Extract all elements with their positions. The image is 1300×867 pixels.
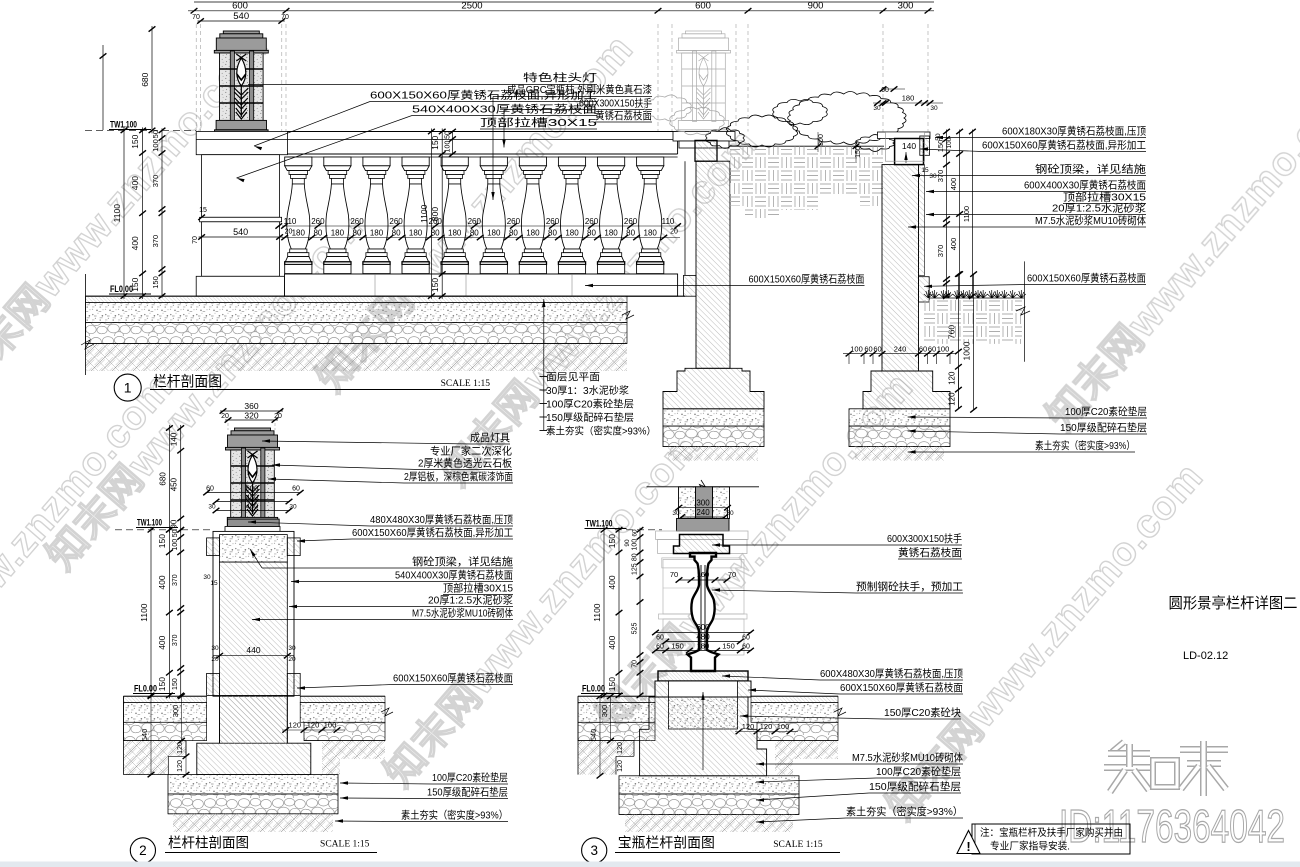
- dim 1000: [973, 274, 975, 410]
- svg-text:900: 900: [808, 1, 824, 12]
- svg-text:60: 60: [632, 529, 639, 537]
- baluster 5: [441, 157, 468, 166]
- svg-text:100: 100: [445, 141, 452, 153]
- s3 background projection blocks: [663, 560, 744, 615]
- svg-text:80: 80: [632, 553, 639, 561]
- svg-text:150厚级配碎石垫层: 150厚级配碎石垫层: [546, 411, 634, 424]
- dim 540 in pillar: [199, 236, 283, 238]
- svg-text:150: 150: [130, 277, 140, 291]
- svg-text:150: 150: [607, 677, 617, 691]
- svg-text:400: 400: [157, 635, 167, 649]
- svg-text:680: 680: [158, 472, 167, 486]
- baluster 7: [519, 157, 546, 166]
- svg-text:480: 480: [696, 632, 710, 641]
- svg-text:120: 120: [307, 721, 320, 730]
- svg-text:30厚1：3水泥砂浆: 30厚1：3水泥砂浆: [546, 384, 629, 397]
- svg-text:600: 600: [232, 1, 248, 12]
- svg-text:100厚C20素砼垫层: 100厚C20素砼垫层: [876, 765, 961, 778]
- svg-text:180: 180: [409, 229, 423, 238]
- svg-text:60: 60: [919, 345, 927, 354]
- svg-text:260: 260: [389, 217, 403, 226]
- GRC footing gravel pad: [663, 426, 764, 447]
- svg-text:100: 100: [777, 722, 790, 731]
- svg-text:180: 180: [331, 229, 345, 238]
- svg-text:2: 2: [139, 843, 147, 858]
- svg-text:400: 400: [130, 236, 140, 250]
- svg-text:!: !: [966, 839, 970, 854]
- svg-text:黄锈石荔枝面: 黄锈石荔枝面: [898, 546, 962, 559]
- svg-text:540X400X30厚黄锈石荔枝面: 540X400X30厚黄锈石荔枝面: [412, 103, 597, 116]
- svg-text:600: 600: [696, 623, 710, 632]
- wall footing steps: [863, 371, 950, 409]
- svg-text:100: 100: [151, 139, 160, 152]
- svg-text:TW1.100: TW1.100: [137, 518, 162, 529]
- s3 ground layers right: [751, 696, 838, 702]
- svg-text:3: 3: [590, 843, 598, 858]
- svg-text:370: 370: [936, 245, 945, 258]
- baluster 2: [324, 157, 351, 166]
- svg-text:70: 70: [728, 570, 736, 579]
- svg-text:30: 30: [288, 645, 296, 652]
- svg-text:150厚级配碎石垫层: 150厚级配碎石垫层: [869, 780, 961, 793]
- svg-text:100: 100: [946, 137, 953, 148]
- s2 side block bottom-right: [287, 673, 300, 695]
- svg-text:1100: 1100: [592, 603, 602, 622]
- svg-text:110: 110: [662, 217, 675, 226]
- svg-text:60: 60: [656, 634, 664, 641]
- svg-text:600X300X150扶手: 600X300X150扶手: [579, 97, 652, 110]
- s2 dim 1100: [150, 527, 152, 699]
- svg-text:钢砼顶梁，详见结施: 钢砼顶梁，详见结施: [412, 555, 514, 568]
- s2 ground layers right stepped: [300, 696, 385, 702]
- s3 handrail projection band: [656, 531, 748, 540]
- wall footing soil: [855, 447, 944, 461]
- s3 vase baluster section: [688, 553, 719, 671]
- GRC column footing steps: [663, 368, 764, 409]
- svg-text:370: 370: [151, 175, 160, 188]
- svg-text:1100: 1100: [962, 206, 971, 222]
- svg-text:600X400X30厚黄锈石荔枝面: 600X400X30厚黄锈石荔枝面: [1024, 179, 1146, 192]
- GRC column ghost lamp: [686, 31, 722, 34]
- svg-text:400: 400: [157, 575, 167, 589]
- svg-text:120: 120: [177, 742, 184, 754]
- lamp feature column-head light: [223, 31, 259, 34]
- s3 footing soil: [625, 814, 793, 832]
- s2 lamp: [235, 428, 271, 431]
- svg-text:370: 370: [936, 170, 945, 183]
- pillar base: [196, 276, 284, 296]
- s1 ground break mark right: [622, 311, 634, 319]
- svg-text:30: 30: [211, 645, 219, 652]
- wall right chain 1100: [971, 130, 973, 299]
- svg-text:20: 20: [274, 413, 282, 420]
- svg-text:70: 70: [192, 14, 200, 21]
- s3 inner chain right: [639, 528, 641, 698]
- svg-text:140: 140: [170, 432, 179, 446]
- svg-text:预制钢砼扶手，预加工: 预制钢砼扶手，预加工: [856, 580, 963, 593]
- s3 top cut line: [647, 486, 760, 488]
- baluster 1: [285, 157, 312, 166]
- title circle 3: [582, 838, 607, 863]
- svg-text:宝瓶栏杆剖面图: 宝瓶栏杆剖面图: [618, 835, 715, 851]
- svg-text:680: 680: [140, 72, 150, 86]
- baluster 8: [558, 157, 585, 166]
- svg-text:300: 300: [171, 705, 180, 718]
- svg-text:M7.5水泥砂浆MU10砖砌体: M7.5水泥砂浆MU10砖砌体: [852, 751, 963, 764]
- svg-text:100: 100: [324, 721, 337, 730]
- svg-text:20厚1:2.5水泥砂浆: 20厚1:2.5水泥砂浆: [1052, 202, 1147, 215]
- svg-text:110: 110: [284, 217, 297, 226]
- s2 ground layers left: [124, 696, 207, 702]
- svg-text:素土夯实（密实度>93%）: 素土夯实（密实度>93%）: [846, 805, 963, 818]
- svg-text:150厚级配碎石垫层: 150厚级配碎石垫层: [1060, 421, 1147, 434]
- dim 680 lamp height: [151, 26, 153, 133]
- svg-text:100: 100: [850, 345, 863, 354]
- compacted soil hatch: [86, 344, 628, 372]
- svg-text:120: 120: [760, 722, 773, 731]
- sheet top border line: [194, 1, 934, 3]
- s3 vase dims 70/160/70: [678, 579, 728, 581]
- svg-text:370: 370: [172, 574, 179, 586]
- s3 cut posts above: [679, 487, 696, 519]
- dim chain 50/100/370/30/370 inner left: [161, 128, 163, 298]
- svg-text:90: 90: [624, 539, 631, 547]
- s2 concrete beam: [220, 535, 288, 563]
- svg-text:150厚级配碎石垫层: 150厚级配碎石垫层: [427, 786, 508, 799]
- svg-text:540: 540: [233, 11, 249, 22]
- svg-text:60: 60: [864, 345, 872, 354]
- svg-text:180: 180: [644, 229, 658, 238]
- svg-text:125: 125: [632, 563, 639, 575]
- s3 band under handrail collar: [662, 558, 741, 568]
- svg-text:1100: 1100: [139, 603, 149, 622]
- svg-text:600X150X60厚黄锈石荔枝面,异形加工: 600X150X60厚黄锈石荔枝面,异形加工: [982, 139, 1146, 152]
- s3 dims 600/480: [655, 632, 752, 634]
- gravel layer 150: [86, 323, 628, 344]
- svg-text:400: 400: [607, 575, 617, 589]
- s2 lamp dim chain 140/450/90: [180, 425, 182, 533]
- svg-text:1100: 1100: [419, 204, 429, 223]
- baluster 4: [402, 157, 429, 166]
- pillar upper body: [202, 155, 280, 218]
- svg-text:ID:1176364042: ID:1176364042: [1059, 800, 1285, 852]
- s2 brick masonry core: [220, 562, 288, 743]
- svg-text:600X180X30厚黄锈石荔枝面,压顶: 600X180X30厚黄锈石荔枝面,压顶: [1002, 125, 1146, 138]
- s2 right step dim 120/120/100: [282, 729, 345, 731]
- s3 ground surface right: [751, 695, 838, 697]
- s3 ground surface left: [578, 695, 655, 697]
- svg-text:素土夯实（密实度>93%）: 素土夯实（密实度>93%）: [401, 809, 508, 822]
- right planting boundary: [1023, 261, 1025, 361]
- svg-text:20: 20: [285, 229, 293, 236]
- svg-text:400: 400: [949, 238, 958, 251]
- s2 footing soil: [173, 814, 333, 832]
- svg-text:180: 180: [292, 229, 306, 238]
- dim 120 120 below 760: [957, 367, 959, 409]
- planter soil line: [730, 145, 884, 147]
- wall right chain outer 400/400: [959, 130, 961, 299]
- svg-text:1000: 1000: [962, 341, 972, 360]
- s3 dim 1100: [603, 527, 605, 699]
- svg-text:260: 260: [468, 217, 482, 226]
- svg-text:600X150X60厚黄锈石荔枝面,异形加工: 600X150X60厚黄锈石荔枝面,异形加工: [352, 526, 513, 539]
- svg-text:480X480X30厚黄锈石荔枝面,压顶: 480X480X30厚黄锈石荔枝面,压顶: [370, 513, 513, 526]
- svg-text:15: 15: [210, 580, 218, 587]
- wall footing concrete pad: [849, 409, 950, 426]
- svg-text:300: 300: [600, 705, 609, 718]
- svg-text:100厚C20素砼垫层: 100厚C20素砼垫层: [1065, 405, 1147, 418]
- warning triangle: [957, 831, 980, 854]
- svg-text:80: 80: [548, 229, 557, 238]
- shrub plants outline: [788, 91, 906, 144]
- svg-text:SCALE 1:15: SCALE 1:15: [320, 839, 370, 849]
- svg-text:100: 100: [172, 539, 179, 551]
- svg-text:2500: 2500: [461, 1, 482, 12]
- s2 inner chain: [180, 528, 182, 698]
- svg-text:240: 240: [894, 345, 907, 354]
- wall shaft: [882, 165, 919, 371]
- svg-text:50: 50: [445, 131, 452, 139]
- svg-text:150: 150: [172, 678, 179, 690]
- svg-text:180: 180: [487, 229, 501, 238]
- s3 left dim chain 150/400/400/150: [618, 527, 620, 699]
- note mianceng jian pingmian: [540, 376, 548, 378]
- right planting weave: [923, 300, 1022, 344]
- s2 column outer finish: [213, 531, 294, 696]
- svg-text:30: 30: [929, 173, 937, 180]
- svg-text:100厚C20素砼垫层: 100厚C20素砼垫层: [546, 398, 634, 411]
- svg-text:120: 120: [617, 760, 624, 772]
- svg-text:1: 1: [124, 380, 132, 396]
- baluster 3: [363, 157, 390, 166]
- baluster top plinth line: [287, 156, 677, 158]
- s2 column cap stone: [228, 519, 280, 526]
- title circle 2: [130, 838, 155, 863]
- dim row 180/80: [282, 237, 680, 239]
- mid dim 50/100: [452, 131, 454, 156]
- GRC column shaft: [696, 161, 730, 368]
- svg-text:50: 50: [151, 130, 160, 138]
- wall base block right: [919, 277, 930, 302]
- svg-text:450: 450: [170, 477, 179, 491]
- mortar bed 30 thick: [86, 296, 628, 302]
- svg-text:60: 60: [742, 634, 750, 641]
- dim 540 over pillar: [198, 20, 285, 22]
- svg-text:540: 540: [140, 729, 149, 742]
- svg-text:20: 20: [288, 656, 296, 663]
- svg-text:260: 260: [311, 217, 325, 226]
- svg-text:150: 150: [157, 677, 167, 691]
- svg-text:600X150X60厚黄锈石荔枝面: 600X150X60厚黄锈石荔枝面: [1027, 272, 1146, 285]
- svg-text:70: 70: [670, 570, 678, 579]
- dim chain 150/400/400/150 left: [142, 127, 144, 299]
- svg-text:150: 150: [722, 641, 735, 650]
- baluster 10: [637, 157, 664, 166]
- mid dim chain 150/800/150: [441, 129, 443, 300]
- svg-text:栏杆柱剖面图: 栏杆柱剖面图: [168, 835, 249, 851]
- s3 handrail top gray block: [677, 519, 730, 532]
- svg-text:专业厂家二次深化: 专业厂家二次深化: [430, 445, 512, 458]
- s3 footing mass: [640, 697, 767, 776]
- pillar lower body: [202, 222, 280, 276]
- s3 cap band 600X480X30: [658, 671, 748, 681]
- svg-text:100厚C20素砼垫层: 100厚C20素砼垫层: [432, 771, 508, 784]
- svg-text:150厚C20素砼块: 150厚C20素砼块: [884, 706, 961, 719]
- svg-text:50: 50: [172, 529, 179, 537]
- svg-text:80: 80: [313, 229, 322, 238]
- svg-text:600: 600: [695, 1, 711, 12]
- s3 dims 300/240: [678, 507, 729, 509]
- svg-text:80: 80: [587, 229, 596, 238]
- svg-text:栏杆剖面图: 栏杆剖面图: [153, 374, 222, 391]
- svg-text:2厚米黄色透光云石板: 2厚米黄色透光云石板: [418, 457, 512, 470]
- svg-text:120: 120: [617, 742, 624, 754]
- svg-text:540X400X30厚黄锈石荔枝面: 540X400X30厚黄锈石荔枝面: [395, 569, 513, 582]
- svg-text:150: 150: [430, 278, 440, 292]
- svg-text:120: 120: [177, 760, 184, 772]
- svg-text:80: 80: [509, 229, 518, 238]
- balustrade bottom rail: [285, 273, 678, 275]
- svg-text:140: 140: [902, 141, 916, 151]
- svg-text:300: 300: [898, 1, 914, 12]
- s2 footing gravel pad: [168, 794, 338, 814]
- svg-text:150: 150: [157, 534, 167, 548]
- svg-text:320: 320: [244, 410, 258, 420]
- wall right finish strip: [919, 165, 925, 276]
- s2 ground surface right: [300, 695, 385, 697]
- s2 dim chain 150/400/400/150: [168, 527, 170, 699]
- svg-text:30: 30: [873, 105, 881, 112]
- svg-text:M7.5水泥砂浆MU10砖砌体: M7.5水泥砂浆MU10砖砌体: [1035, 214, 1146, 227]
- dim row 600/2500/600/900/300: [188, 10, 934, 12]
- svg-text:20: 20: [221, 413, 229, 420]
- svg-text:150: 150: [607, 534, 617, 548]
- svg-text:80: 80: [353, 229, 362, 238]
- svg-text:顶部拉槽30X15: 顶部拉槽30X15: [443, 582, 513, 595]
- svg-text:60: 60: [206, 486, 214, 493]
- wall cap dashed outline: [885, 132, 924, 161]
- svg-text:480: 480: [246, 493, 259, 502]
- svg-text:专业厂家指导安装.: 专业厂家指导安装.: [990, 840, 1070, 853]
- note 100hou C20: [540, 403, 548, 405]
- svg-text:400: 400: [607, 635, 617, 649]
- svg-text:70: 70: [281, 14, 289, 21]
- s2 lamp dim 680: [168, 425, 170, 533]
- svg-text:LD-02.12: LD-02.12: [1183, 650, 1228, 662]
- svg-text:370: 370: [172, 634, 179, 646]
- notes leader vertical: [543, 299, 545, 430]
- svg-text:60: 60: [928, 345, 936, 354]
- svg-text:180: 180: [526, 229, 540, 238]
- svg-text:30: 30: [289, 504, 297, 511]
- svg-text:180: 180: [902, 94, 915, 103]
- svg-text:70: 70: [192, 236, 199, 244]
- right planting soil line: [929, 297, 1024, 299]
- svg-text:80: 80: [431, 229, 440, 238]
- s2 footing concrete pad: [168, 775, 338, 794]
- svg-text:1100: 1100: [112, 204, 122, 223]
- svg-text:240: 240: [696, 508, 710, 517]
- svg-text:钢砼顶梁，详见结施: 钢砼顶梁，详见结施: [1035, 163, 1147, 176]
- s3 ground break mark right: [834, 708, 846, 716]
- svg-text:100: 100: [632, 539, 639, 551]
- svg-text:150: 150: [130, 134, 140, 148]
- GRC column left finish strip: [684, 161, 686, 275]
- s2 footing mass: [197, 695, 311, 774]
- note sutu hangshi: [540, 430, 548, 432]
- grass tufts: [924, 290, 933, 298]
- svg-text:260: 260: [429, 217, 443, 226]
- svg-text:60: 60: [742, 643, 750, 650]
- note 150hou jipeisuishi: [540, 416, 548, 418]
- svg-text:成品GRC宝瓶柱,外刷米黄色真石漆: 成品GRC宝瓶柱,外刷米黄色真石漆: [507, 83, 652, 96]
- svg-text:TW1.100: TW1.100: [586, 519, 613, 530]
- pillar mid band: [200, 217, 282, 222]
- svg-text:180: 180: [448, 229, 462, 238]
- svg-text:480: 480: [246, 502, 259, 511]
- svg-text:30: 30: [672, 510, 680, 517]
- svg-text:80: 80: [626, 229, 635, 238]
- svg-text:特色柱头灯: 特色柱头灯: [523, 71, 598, 84]
- GRC column cap core: [695, 140, 717, 161]
- svg-text:SCALE 1:15: SCALE 1:15: [441, 379, 491, 389]
- svg-text:150: 150: [936, 140, 945, 153]
- s3 concrete block C20: [669, 697, 738, 729]
- s2 ground break mark right: [381, 708, 393, 716]
- svg-text:圆形景亭栏杆详图二: 圆形景亭栏杆详图二: [1169, 594, 1298, 612]
- wall small top dims 30/180/30: [873, 102, 943, 104]
- GRC column cap: [673, 132, 735, 142]
- svg-text:600X480X30厚黄锈石荔枝面,压顶: 600X480X30厚黄锈石荔枝面,压顶: [820, 667, 963, 680]
- s3 dims 60/150/180/150/60: [655, 650, 752, 652]
- svg-text:600X150X60厚黄锈石荔枝面: 600X150X60厚黄锈石荔枝面: [393, 672, 513, 685]
- svg-text:525: 525: [632, 623, 639, 635]
- svg-text:素土夯实（密实度>93%）: 素土夯实（密实度>93%）: [546, 425, 656, 438]
- svg-text:TW1.100: TW1.100: [110, 120, 137, 131]
- dim 760: [957, 274, 959, 351]
- svg-text:30: 30: [930, 105, 938, 112]
- svg-text:120: 120: [289, 721, 302, 730]
- svg-text:150: 150: [671, 641, 684, 650]
- mid dim chain 1100: [430, 129, 432, 300]
- zhimo logo outline: [1104, 741, 1228, 796]
- svg-text:20厚1:2.5水泥砂浆: 20厚1:2.5水泥砂浆: [428, 594, 513, 607]
- svg-text:注：宝瓶栏杆及扶手厂家购买并由: 注：宝瓶栏杆及扶手厂家购买并由: [980, 826, 1123, 839]
- svg-text:30: 30: [726, 510, 734, 517]
- svg-text:M7.5水泥砂浆MU10砖砌体: M7.5水泥砂浆MU10砖砌体: [412, 607, 513, 620]
- s3 step dim 120/120/100 right: [735, 731, 798, 733]
- pillar cap band: [196, 132, 287, 155]
- svg-text:2厚铝板，深棕色氟碳漆饰面: 2厚铝板，深棕色氟碳漆饰面: [404, 470, 513, 483]
- svg-text:180: 180: [370, 229, 384, 238]
- svg-text:150: 150: [430, 135, 440, 149]
- svg-text:400: 400: [949, 178, 958, 191]
- svg-text:370: 370: [151, 235, 160, 248]
- GRC footing soil: [668, 447, 758, 461]
- svg-text:260: 260: [507, 217, 521, 226]
- handrail band: [287, 131, 677, 133]
- bottom page bar: [0, 862, 1300, 867]
- svg-text:20: 20: [670, 229, 678, 236]
- s3 handrail stone section: [674, 535, 730, 554]
- svg-text:120: 120: [948, 371, 957, 385]
- svg-text:260: 260: [624, 217, 638, 226]
- svg-text:80: 80: [470, 229, 479, 238]
- s3 band 600X150X60: [655, 681, 751, 697]
- svg-text:440: 440: [246, 645, 260, 655]
- svg-text:150: 150: [151, 276, 160, 289]
- svg-text:180: 180: [604, 229, 618, 238]
